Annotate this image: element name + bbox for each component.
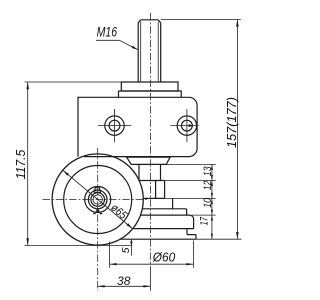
M16 leader <box>96 40 137 49</box>
dimension 117.5 line <box>27 82 29 246</box>
stack band 10 <box>142 198 186 208</box>
chain extension lines <box>161 164 216 215</box>
stack cylinder band 13 <box>139 164 161 180</box>
svg-text:M16: M16 <box>97 25 118 40</box>
hub bottom mark <box>96 208 100 212</box>
left hole outer circle <box>105 116 124 135</box>
washer under stud <box>121 82 178 91</box>
grease fitting on hub top <box>94 188 101 193</box>
right hole inner circle <box>182 120 193 131</box>
hub outer circle <box>85 187 111 213</box>
stack band 12 <box>137 181 165 199</box>
svg-text:13: 13 <box>202 166 214 176</box>
dimension 5 line <box>130 239 132 255</box>
svg-text:12: 12 <box>202 181 214 191</box>
wheel outer circle <box>52 154 143 245</box>
stud centerline <box>149 13 151 268</box>
dimension o65 diagonal line <box>63 170 133 229</box>
hub inner small circle <box>93 195 102 204</box>
chain dimension line <box>211 164 213 239</box>
svg-text:157(177): 157(177) <box>225 97 239 148</box>
svg-text:Ø60: Ø60 <box>152 250 176 265</box>
wheel vertical centerline <box>97 148 99 291</box>
left hole crosshair <box>98 109 131 142</box>
stud thread lines <box>141 22 159 82</box>
dimension 157(177) line <box>236 19 238 239</box>
dimension 5 extension <box>98 245 132 247</box>
stud M16 body <box>138 20 161 82</box>
svg-text:10: 10 <box>202 197 214 207</box>
base plate <box>119 91 182 97</box>
svg-text:117.5: 117.5 <box>14 150 28 180</box>
right hole crosshair <box>170 109 198 142</box>
right hole outer circle <box>177 116 196 135</box>
dimension o60 extensions <box>110 241 194 268</box>
chain arrows <box>211 164 213 170</box>
dimension o60 line <box>110 263 194 265</box>
svg-text:38: 38 <box>117 274 131 288</box>
dimension 38 extension <box>149 268 151 291</box>
left hole inner circle <box>109 120 120 131</box>
dimension 38 line <box>98 285 151 287</box>
wheel horizontal centerline <box>43 199 148 201</box>
wheel rim circle <box>64 166 132 234</box>
foot pad rubber bottom <box>120 229 196 240</box>
foot pad top part <box>133 215 194 229</box>
body rounded plate <box>78 97 197 156</box>
extension line wheel bottom left <box>25 245 98 247</box>
extension line stud top <box>161 18 241 20</box>
hub bore circle <box>91 193 105 207</box>
hub middle circle <box>88 190 107 209</box>
svg-text:17: 17 <box>198 216 210 225</box>
ground line extension <box>196 238 242 240</box>
foot flange <box>186 209 188 215</box>
right hole arrow mark <box>189 124 194 127</box>
collar trapezoid under body <box>127 157 171 164</box>
extension line top plate level <box>25 81 122 83</box>
svg-text:5: 5 <box>120 247 132 253</box>
